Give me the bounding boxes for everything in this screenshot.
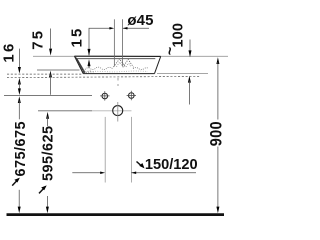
drain hole right extension line (122, 19, 124, 66)
dim 16 upper shaft (18, 49, 20, 68)
dim ~100 lower shaft (188, 81, 190, 105)
dashed counter line B (7, 76, 199, 77)
dim 900 lower shaft (217, 147, 219, 208)
floor line (7, 213, 225, 216)
svg-text:675/675: 675/675 (13, 121, 29, 177)
small supply circle A (102, 93, 108, 99)
dim 900 up arrowhead at rim line (216, 57, 219, 64)
dim 150/120 left leader (72, 172, 101, 174)
dim 595/625 lower shaft (46, 196, 48, 208)
dashed counter line A (7, 73, 83, 75)
dim 675/675 down arrowhead at floor (18, 207, 21, 214)
oblique arrow under 675/675 (12, 180, 17, 186)
svg-text:75: 75 (30, 29, 47, 50)
dim 595/625 upper shaft (47, 117, 49, 127)
drain hole left extension line (113, 19, 115, 66)
svg-text:595/625: 595/625 (40, 125, 56, 181)
washbasin inner bottom second dotted row (86, 70, 149, 73)
svg-text:100: 100 (170, 23, 186, 48)
small supply circle B (129, 93, 135, 99)
svg-text:16: 16 (0, 42, 17, 63)
drain dome dotted outline right (123, 59, 134, 67)
dim 15 down arrowhead at rim (88, 49, 91, 56)
washbasin right wall edge (155, 56, 161, 73)
dim 75 lower shaft down to supply centerline (50, 75, 52, 95)
oblique arrow under 595/625 (39, 188, 44, 194)
washbasin top rim edge (74, 55, 160, 57)
ø45 leader right (123, 27, 149, 29)
drain centerline (line2) (38, 110, 92, 112)
dim 595/625 up arrowhead below drain centerline (46, 112, 49, 119)
washbasin left wall stipple hatch (75, 57, 85, 74)
svg-text:ø45: ø45 (127, 12, 153, 29)
oblique arrow before 150/120 (137, 162, 141, 166)
washbasin left wall outer edge (section) (74, 56, 83, 73)
dim 675/675 upper shaft (18, 101, 20, 120)
drain circle (113, 106, 123, 116)
down arrowhead at supply centerline (18, 88, 21, 95)
dim 75 lower up arrowhead (49, 71, 52, 78)
washbasin left inner corner dotted arcs (85, 71, 94, 73)
dim 595/625 down arrowhead at floor (46, 207, 49, 214)
dimension ø45 leader left with elbow of dim 15 (89, 28, 111, 55)
dim ~100 down arrowhead at rim line (189, 50, 192, 57)
drain circle vertical centerline (117, 78, 119, 122)
ø45 left-pointing arrowhead (123, 27, 128, 30)
shaft from dashed line B down to supply centerline (18, 83, 20, 90)
dim 150/120 right leader (131, 172, 196, 174)
dim ~100 up arrowhead at dashed line (188, 76, 191, 83)
svg-text:~: ~ (163, 47, 179, 55)
dim 75 down arrowhead at rim (49, 49, 52, 56)
dim 15 lower shaft (88, 63, 90, 68)
svg-text:900: 900 (208, 121, 226, 146)
counter top solid line under basin left (37, 69, 80, 71)
drain dome dotted outline left (114, 59, 126, 67)
circle A cross ticks (100, 91, 109, 101)
drain centerline light segment through circle (92, 110, 132, 112)
drain dome inner dotted slopes (117, 63, 132, 68)
washbasin bottom edge (83, 73, 154, 75)
dim 75 upper shaft (50, 29, 52, 49)
dim 150/120 left-pointing arrowhead (131, 172, 136, 175)
circle B cross ticks (127, 91, 136, 101)
dim 16 up arrowhead at dashed line B (18, 78, 21, 85)
supply centerline (line1) (4, 94, 92, 96)
dim 15 lower up arrowhead inside basin (88, 59, 91, 66)
extension line below circle A (104, 117, 106, 183)
dim 16 down arrowhead at dashed line A (18, 67, 21, 74)
dim 675/675 lower shaft (18, 190, 20, 208)
counter reference line (rim level, left extension) (33, 55, 228, 57)
dim 900 down arrowhead at floor (216, 207, 219, 214)
svg-text:150/120: 150/120 (145, 157, 198, 173)
dim 675/675 up arrowhead below supply centerline (18, 96, 21, 103)
solid line right of basin at counter level (157, 72, 208, 74)
ø45 right-pointing arrowhead (109, 27, 114, 30)
extension line below circle B (130, 117, 132, 183)
dim 900 upper shaft (217, 62, 219, 120)
washbasin inner rim line (77, 58, 155, 60)
dim 150/120 right-pointing arrowhead (100, 172, 105, 175)
svg-text:15: 15 (69, 26, 86, 47)
washbasin inner bottom dotted contour (85, 67, 149, 69)
dim ~100 upper shaft (189, 40, 191, 51)
washbasin left wall inner edge (77, 59, 85, 73)
